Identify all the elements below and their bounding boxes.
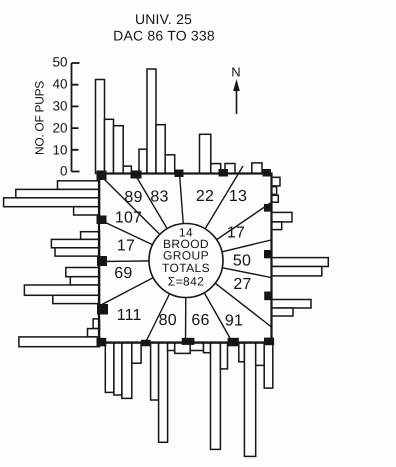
marker left edge y261 <box>97 256 107 266</box>
enclosure square <box>99 174 272 343</box>
left histogram bar 13 (5) <box>88 329 100 337</box>
marker top edge x223 <box>219 169 229 177</box>
sector line 69|17 <box>99 261 186 262</box>
svg-text:0: 0 <box>60 164 68 179</box>
marker top-right corner <box>263 169 272 177</box>
top histogram bar 11 (4) <box>225 164 235 174</box>
top histogram bar 2 (24) <box>105 119 114 173</box>
sector line 91|66 <box>186 261 233 343</box>
svg-text:89: 89 <box>124 189 142 206</box>
svg-text:30: 30 <box>52 99 67 114</box>
svg-text:13: 13 <box>229 188 247 205</box>
marker top-left corner <box>97 171 107 181</box>
marker bottom-right corner <box>264 338 274 346</box>
svg-text:40: 40 <box>52 77 67 92</box>
marker right edge y254 <box>264 250 271 258</box>
marker bottom edge x146 <box>141 340 151 347</box>
bottom histogram bar 15 (10) <box>256 343 265 365</box>
sector line 66|80 <box>185 261 188 343</box>
right histogram bar 1 (4) <box>272 177 281 186</box>
marker left edge y309 <box>97 304 108 315</box>
bottom histogram bar 2 (24) <box>114 343 122 395</box>
bottom histogram bar 9 (3) <box>190 343 203 351</box>
y-axis line <box>71 63 73 172</box>
svg-text:DAC 86 TO 338: DAC 86 TO 338 <box>113 28 215 44</box>
left histogram bar 2 (38) <box>16 189 100 197</box>
svg-text:107: 107 <box>115 209 142 226</box>
top histogram bar 3 (21) <box>114 126 124 174</box>
right histogram bar 6 (26) <box>272 258 329 267</box>
marker right edge y208 <box>264 204 272 212</box>
svg-text:69: 69 <box>114 265 132 282</box>
top histogram bar 5 (10) <box>139 149 147 173</box>
bottom histogram bar 6 (46) <box>159 343 168 442</box>
top histogram bar 12 (4) <box>252 163 262 174</box>
left histogram bar 11 (21) <box>53 295 100 303</box>
svg-text:80: 80 <box>159 312 177 329</box>
marker bottom-left corner <box>97 338 107 347</box>
sector line 17|107 <box>99 220 186 261</box>
sector line 83|22 <box>180 174 187 261</box>
left histogram bar 6 (22) <box>51 239 99 247</box>
marker left edge y220 <box>97 216 107 225</box>
svg-text:N: N <box>231 65 240 80</box>
right histogram bar 4 (9) <box>272 212 293 222</box>
svg-text:TOTALS: TOTALS <box>162 261 210 275</box>
svg-text:Σ=842: Σ=842 <box>168 274 204 288</box>
left histogram bar 3 (44) <box>4 198 100 207</box>
svg-text:83: 83 <box>150 189 168 206</box>
svg-text:50: 50 <box>233 253 251 270</box>
left histogram bar 8 (15) <box>66 268 100 277</box>
bottom histogram bar 12 (12) <box>220 343 227 369</box>
y-axis ticks <box>72 63 80 172</box>
bottom histogram bar 10 (4) <box>204 343 211 353</box>
north arrow head <box>233 79 240 91</box>
bottom histogram bar 3 (25) <box>122 343 132 398</box>
left histogram bar 5 (8) <box>81 232 100 240</box>
bottom histogram bar 13 (9) <box>239 343 245 362</box>
top histogram bar 8 (8) <box>165 155 175 174</box>
bottom histogram bar 11 (49) <box>211 343 221 449</box>
sector line 80|111 <box>146 261 187 343</box>
right histogram bar 8 (18) <box>272 300 312 309</box>
marker right edge y296 <box>264 292 271 301</box>
marker top edge x179 <box>175 170 184 178</box>
svg-text:NO. OF PUPS: NO. OF PUPS <box>33 81 47 155</box>
bottom histogram bar 4 (9) <box>132 343 141 363</box>
left histogram bar 10 (34) <box>24 285 99 295</box>
top histogram bar 6 (47) <box>147 69 156 174</box>
marker bottom edge x233 <box>228 338 239 347</box>
svg-text:17: 17 <box>117 238 135 255</box>
sector line 13|17 <box>186 203 271 261</box>
bottom histogram bar 7 (3) <box>168 343 175 351</box>
svg-text:UNIV. 25: UNIV. 25 <box>135 11 192 27</box>
top histogram bar 7 (21) <box>156 125 165 174</box>
sector line to top-left corner <box>100 175 186 261</box>
sector line 50|27 <box>186 261 271 278</box>
bottom histogram bar 8 (5) <box>175 343 191 353</box>
left histogram bar 9 (13) <box>70 277 99 285</box>
right histogram bar 9 (10) <box>272 308 294 316</box>
svg-text:66: 66 <box>191 312 209 329</box>
right histogram bar 5 (5) <box>272 222 282 230</box>
svg-text:50: 50 <box>52 55 67 70</box>
sector line 17|50 <box>186 240 271 261</box>
svg-text:22: 22 <box>196 188 214 205</box>
marker top edge x135 <box>131 171 142 179</box>
left histogram bar 14 (37) <box>19 337 100 347</box>
svg-text:10: 10 <box>52 143 67 158</box>
top histogram bar 10 (4) <box>211 164 221 174</box>
right histogram bar 7 (23) <box>272 267 322 276</box>
left histogram bar 4 (12) <box>74 207 100 215</box>
north arrow shaft <box>236 86 238 114</box>
bottom histogram bar 14 (52) <box>244 343 255 456</box>
right histogram bar 2 (2) <box>272 187 277 195</box>
top histogram bar 9 (17) <box>200 134 211 173</box>
left histogram bar 1 (19) <box>58 181 100 190</box>
bottom histogram bar 1 (23) <box>105 343 114 392</box>
svg-text:27: 27 <box>233 276 251 293</box>
bottom histogram bar 5 (26) <box>151 343 159 400</box>
svg-text:111: 111 <box>117 307 142 324</box>
svg-text:20: 20 <box>52 121 67 136</box>
right histogram bar 3 (3) <box>272 195 279 202</box>
svg-text:17: 17 <box>227 225 245 242</box>
svg-text:91: 91 <box>225 313 243 330</box>
sector line 111|69 <box>99 261 186 307</box>
bottom histogram bar 16 (21) <box>264 343 273 388</box>
sector line 89|83 <box>135 174 187 261</box>
sector line 27|91 <box>186 261 272 328</box>
top histogram bar 4 (3) <box>123 166 131 173</box>
sector line 22|13 <box>186 166 243 261</box>
marker bottom edge x188 <box>182 338 195 345</box>
top histogram bar 1 (42) <box>96 80 105 174</box>
left histogram bar 7 (21) <box>55 248 100 256</box>
central circle <box>149 224 223 298</box>
left histogram bar 12 (3) <box>93 319 99 329</box>
